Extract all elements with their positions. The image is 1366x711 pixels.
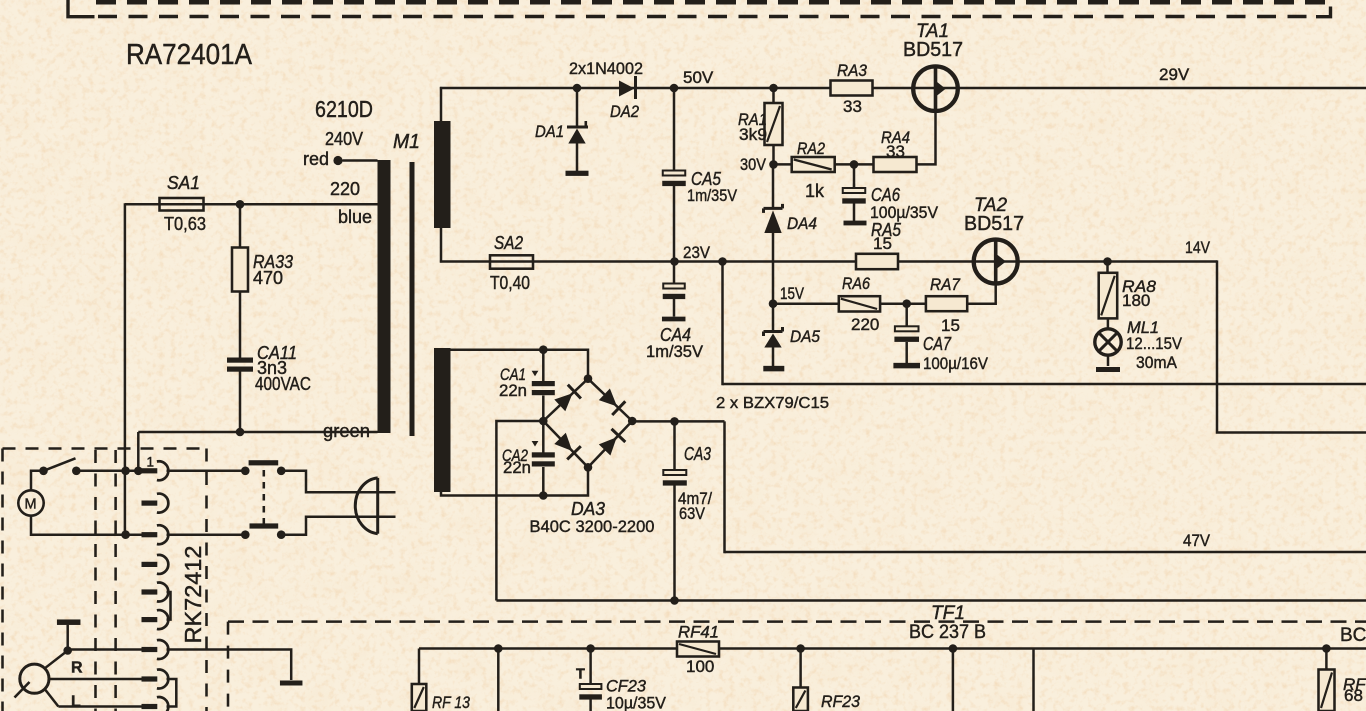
label RA6 <box>842 274 870 293</box>
node dot CF23 <box>586 644 595 653</box>
wire drop a <box>497 649 500 711</box>
label CA1 <box>500 366 526 384</box>
svg-text:RF23: RF23 <box>821 692 861 711</box>
connector pin 5 <box>142 583 169 602</box>
node dot CA3 top <box>670 417 679 426</box>
svg-text:DA3: DA3 <box>571 499 605 519</box>
connector pin 2 <box>142 494 169 513</box>
resistor RA4 <box>874 157 917 172</box>
wire contact to plug pin 1 <box>281 471 395 493</box>
label 50V <box>683 68 714 87</box>
resistor RA7 <box>926 296 967 311</box>
label 6210D <box>315 96 373 122</box>
diode DA1 <box>567 88 588 171</box>
svg-text:15: 15 <box>941 316 960 335</box>
label CA4 <box>660 325 691 345</box>
svg-text:22n: 22n <box>503 459 531 477</box>
wire green drop <box>137 432 140 471</box>
svg-text:BC 237 B: BC 237 B <box>909 622 986 643</box>
connector pin 3 <box>142 525 169 544</box>
wire RF68 riser <box>1325 649 1328 671</box>
polarity mark CA2 <box>532 441 539 447</box>
label TF1 <box>931 603 965 624</box>
lamp ML1 <box>1095 329 1121 355</box>
label 4m7/ <box>678 489 712 508</box>
label 15V <box>780 284 805 303</box>
svg-text:220: 220 <box>851 315 879 334</box>
label SA2 <box>494 233 523 253</box>
node dot bridge top <box>584 374 593 383</box>
label CA5 <box>691 169 722 189</box>
diode DA2 <box>619 76 636 99</box>
svg-text:180: 180 <box>1122 291 1150 310</box>
resistor RA2 <box>792 157 835 172</box>
wire connector1 to contact <box>167 470 247 473</box>
label T0,63 <box>164 214 206 234</box>
jumper connectors 8-9 <box>167 679 177 707</box>
resistor RF13 <box>412 684 427 711</box>
wire secondary-lower-bottom to bridge AC2 <box>441 467 588 496</box>
wire 23V / 14V rail <box>440 260 1217 263</box>
label BC right <box>1340 625 1366 646</box>
wire TA2 base <box>967 284 996 304</box>
node dot bridge bottom <box>584 463 593 472</box>
pickup cartridge symbol <box>15 664 50 697</box>
label RA1 <box>738 110 767 129</box>
svg-text:47V: 47V <box>1183 531 1211 550</box>
node dot DA1 anode <box>573 84 582 93</box>
node dot 15V <box>769 299 778 308</box>
wire RF rail <box>419 647 1366 650</box>
wire ML1 to chassis <box>1107 355 1110 366</box>
wire 220 rail (SA1 to transformer) <box>125 203 378 206</box>
svg-text:29V: 29V <box>1159 65 1190 84</box>
svg-text:M: M <box>25 497 37 513</box>
node dot CA3 bottom <box>670 596 679 605</box>
svg-text:50V: 50V <box>683 68 714 87</box>
bridge diode lower-right <box>599 429 626 456</box>
svg-text:68: 68 <box>1344 686 1363 705</box>
wire return rail <box>723 383 1366 386</box>
label 240V <box>325 129 363 149</box>
chassis bar CA4 <box>662 317 686 322</box>
label 1m/35V CA4 <box>646 342 704 361</box>
connector pin 6 <box>142 610 169 629</box>
svg-text:470: 470 <box>253 268 283 288</box>
svg-text:100µ/16V: 100µ/16V <box>923 354 989 373</box>
label blue <box>338 207 372 227</box>
mains contact bar bottom <box>250 523 279 528</box>
label CF23 <box>606 677 647 696</box>
label green <box>323 421 370 441</box>
label 63V <box>679 504 706 523</box>
label 30V <box>740 155 767 174</box>
svg-text:M1: M1 <box>393 131 420 153</box>
svg-text:1: 1 <box>147 455 155 470</box>
svg-text:blue: blue <box>338 207 372 227</box>
wire RA2 to RA4 <box>835 163 875 166</box>
label DA1 <box>535 122 564 141</box>
label 14V <box>1185 238 1211 257</box>
diode DA5 (zener) <box>764 304 783 366</box>
mains contact dot d <box>277 530 286 539</box>
wire SA1 left drop <box>124 203 127 535</box>
svg-text:BD517: BD517 <box>903 39 963 61</box>
label 1m/35V CA5 <box>687 186 738 205</box>
capacitor CF23 <box>579 649 602 711</box>
label 15 RA5 <box>873 234 892 253</box>
wire secondary-lower to bridge AC1 <box>451 350 589 380</box>
svg-text:DA2: DA2 <box>610 102 639 121</box>
wire RA6 to RA7 <box>880 302 927 305</box>
switch SK1 contact dot right <box>72 467 81 476</box>
svg-text:T0,40: T0,40 <box>490 273 530 293</box>
label BC237B <box>909 622 986 643</box>
label CA11 <box>257 343 297 363</box>
svg-text:RK72412: RK72412 <box>180 546 206 644</box>
label 33 RA4 <box>886 142 905 161</box>
chassis bar ML1 <box>1096 367 1120 372</box>
jumper connectors 5-6 <box>167 592 171 620</box>
transformer M1 secondary winding upper <box>434 121 451 228</box>
wire 0V bottom rail <box>496 599 1366 602</box>
dashed border second row <box>98 15 1316 18</box>
fuse SA1 <box>160 198 204 211</box>
wire green (transformer to drop) <box>138 431 377 434</box>
svg-text:RA7: RA7 <box>930 275 960 294</box>
svg-text:R: R <box>71 660 83 677</box>
wire drop c <box>1032 649 1035 711</box>
wire switch to connector 1 <box>76 470 142 473</box>
label 100u/16V <box>923 354 989 373</box>
label 100 RF41 <box>686 657 714 676</box>
label RA4 <box>881 128 910 147</box>
resistor RA5 <box>856 254 898 269</box>
wire 47V riser <box>723 421 726 553</box>
svg-text:15V: 15V <box>780 284 805 303</box>
wire 50V / 29V rail <box>440 87 1366 90</box>
node dot drop b <box>949 644 958 653</box>
label RA7 <box>930 275 960 294</box>
svg-text:15: 15 <box>873 234 892 253</box>
node dot pickup <box>63 646 72 655</box>
border corner bracket right <box>1316 7 1331 17</box>
dashed line inner a <box>94 450 97 711</box>
label 47V <box>1183 531 1211 550</box>
label DA5 <box>790 327 820 346</box>
label T CF23 <box>576 667 585 683</box>
svg-text:T: T <box>576 667 585 683</box>
node dot bridge left <box>539 417 548 426</box>
capacitor CA3 <box>663 421 687 600</box>
svg-text:3k9: 3k9 <box>739 125 767 144</box>
wire contact to plug pin 2 <box>281 517 395 535</box>
node dot RF rail a <box>494 644 503 653</box>
node dot CA2 bottom <box>539 491 548 500</box>
node dot 23V/CA5 <box>670 257 679 266</box>
node dot SA1-drop row1 <box>121 467 130 476</box>
label 30mA <box>1136 353 1178 372</box>
node dot CA11/green <box>236 428 245 437</box>
switch SK1 lever <box>44 458 76 471</box>
dashed border top row <box>96 0 1330 5</box>
diode DA4 (zener) <box>764 164 783 303</box>
label 22n CA1 <box>499 382 527 400</box>
wire RF23 riser <box>799 649 802 689</box>
node dot SA1-drop row3 <box>121 530 130 539</box>
svg-text:L: L <box>71 694 81 711</box>
wire 30V to RA2 <box>774 163 793 166</box>
wire 47V rail <box>725 551 1366 554</box>
label 2xBZX79/C15 <box>716 395 829 412</box>
node dot CA1 top <box>539 345 548 354</box>
chassis bar DA1 <box>566 171 589 176</box>
svg-text:T0,63: T0,63 <box>164 214 206 234</box>
label RF41 <box>678 623 719 642</box>
capacitor CA5 <box>662 88 686 262</box>
dashed separator TF1 <box>228 620 1366 623</box>
resistor RA6 <box>839 296 880 311</box>
node dot 50V/CA5 <box>670 84 679 93</box>
label B40C3200-2200 <box>530 517 655 536</box>
node dot RF23 <box>796 644 805 653</box>
svg-text:RF 13: RF 13 <box>432 693 470 711</box>
svg-text:RA2: RA2 <box>797 139 825 158</box>
label R <box>71 660 83 677</box>
wire pickup ground drop <box>66 625 69 651</box>
dashed box left <box>1 449 4 711</box>
svg-text:220: 220 <box>330 179 360 199</box>
wire secondary-top-bottom to 23V rail <box>440 228 443 263</box>
label RA3 <box>837 61 867 80</box>
label 400VAC <box>255 374 311 394</box>
resistor RF23 <box>793 688 808 711</box>
wire 14V down and right <box>1217 260 1366 432</box>
svg-text:10µ/35V: 10µ/35V <box>606 694 667 711</box>
svg-text:DA5: DA5 <box>790 327 820 346</box>
label SA1 <box>167 173 200 193</box>
label pin 1 <box>147 455 155 470</box>
svg-text:SA1: SA1 <box>167 173 200 193</box>
svg-text:CA6: CA6 <box>871 185 901 205</box>
label 180 <box>1122 291 1150 310</box>
dashed box right <box>205 449 208 711</box>
connector pin 8 <box>142 670 169 689</box>
svg-text:33: 33 <box>843 97 862 116</box>
chassis bar connector7 <box>280 681 303 686</box>
label red <box>303 149 329 169</box>
node dot 50V/RA1 <box>769 84 778 93</box>
wire RF13 riser <box>418 649 421 685</box>
switch SK1 contact dot left <box>39 467 48 476</box>
resistor RA1 <box>765 88 783 164</box>
label 33 RA3 <box>843 97 862 116</box>
label CA3 <box>684 444 711 464</box>
transformer M1 core <box>410 162 415 436</box>
label RF <box>1343 675 1366 694</box>
resistor RA8 <box>1099 262 1118 319</box>
wire 15V to RA6 <box>773 302 840 305</box>
mains contact dot c <box>241 530 250 539</box>
capacitor CA1 <box>532 350 555 422</box>
svg-text:400VAC: 400VAC <box>255 374 311 394</box>
polarity mark CA1 <box>532 371 539 377</box>
svg-text:6210D: 6210D <box>315 96 373 122</box>
mains plug symbol <box>355 478 377 534</box>
wire motor top <box>31 471 44 491</box>
wire drop b <box>952 649 955 711</box>
fuse SA2 <box>490 255 533 268</box>
wire R to connector 8 <box>49 678 142 681</box>
bridge diode lower-left <box>554 433 581 460</box>
label M1 <box>393 131 420 153</box>
title RA72401A <box>126 39 252 71</box>
capacitor CA7 <box>894 304 919 363</box>
label DA4 <box>787 214 817 233</box>
bridge diode upper-left <box>554 385 581 412</box>
label DA2 <box>610 102 639 121</box>
svg-text:1m/35V: 1m/35V <box>646 342 704 361</box>
transistor TA1 <box>913 66 958 111</box>
label CA7 <box>923 334 952 354</box>
terminal dot red <box>333 156 342 165</box>
svg-text:RA72401A: RA72401A <box>126 39 252 71</box>
svg-text:23V: 23V <box>683 243 711 262</box>
node dot green-drop row1 <box>134 467 143 476</box>
svg-text:red: red <box>303 149 329 169</box>
transistor TA2 <box>974 240 1018 284</box>
label 23V <box>683 243 711 262</box>
svg-text:14V: 14V <box>1185 238 1211 257</box>
wire motor bottom <box>31 516 142 535</box>
wire connector7 to chassis <box>167 650 292 681</box>
capacitor CA11 <box>227 358 253 372</box>
transformer M1 primary winding <box>378 160 391 433</box>
svg-text:2 x BZX79/C15: 2 x BZX79/C15 <box>716 395 829 412</box>
label ML1 <box>1127 318 1159 337</box>
label BD517 TA2 <box>964 213 1024 235</box>
resistor RA3 <box>831 81 873 96</box>
wire bridge minus loop <box>496 421 543 601</box>
node dot RA6/CA7 <box>902 299 911 308</box>
node dot 220/RA33 <box>236 200 245 209</box>
label L <box>71 694 81 711</box>
svg-text:TF1: TF1 <box>931 603 965 624</box>
svg-text:RA3: RA3 <box>837 61 867 80</box>
chassis bar DA5 <box>763 366 784 372</box>
node dot RF68 <box>1322 644 1331 653</box>
label CA2 <box>502 447 528 465</box>
label 220 <box>330 179 360 199</box>
svg-text:DA1: DA1 <box>535 122 564 141</box>
label 29V <box>1159 65 1190 84</box>
label TA1 <box>916 21 949 42</box>
capacitor CA4 <box>663 262 686 317</box>
svg-text:CA7: CA7 <box>923 334 952 354</box>
svg-text:CA3: CA3 <box>684 444 711 464</box>
label 220 RA6 <box>851 315 879 334</box>
svg-text:240V: 240V <box>325 129 363 149</box>
mains contact bar top <box>249 460 279 465</box>
label 1k <box>805 181 825 201</box>
svg-text:DA4: DA4 <box>787 214 817 233</box>
wire bus 23V-to-return-rail <box>721 262 724 386</box>
label 22n CA2 <box>503 459 531 477</box>
label 3n3 <box>257 358 287 378</box>
label CA6 <box>871 185 901 205</box>
svg-text:RF41: RF41 <box>678 623 719 642</box>
label TA2 <box>974 195 1007 216</box>
label RA8 <box>1122 277 1157 296</box>
svg-text:22n: 22n <box>499 382 527 400</box>
label 470 <box>253 268 283 288</box>
resistor RA33 <box>232 204 248 291</box>
label 3k9 <box>739 125 767 144</box>
wire RA7 to TA2 base <box>967 302 996 305</box>
svg-text:BC: BC <box>1340 625 1366 646</box>
label 12...15V <box>1126 334 1183 353</box>
label 68 <box>1344 686 1363 705</box>
node dot 30V <box>769 160 778 169</box>
label RF23 <box>821 692 861 711</box>
svg-text:B40C 3200-2200: B40C 3200-2200 <box>530 517 655 536</box>
motor M1 symbol <box>18 490 43 515</box>
node dot bridge right <box>628 417 637 426</box>
node dot RA2/CA6 <box>850 160 859 169</box>
node dot 14V/RA8 <box>1103 257 1112 266</box>
resistor RF68 <box>1319 670 1335 711</box>
label RK72412 <box>180 546 206 644</box>
label RF13 <box>432 693 470 711</box>
dashed box top <box>3 447 207 450</box>
chassis bar CA6 <box>844 221 867 226</box>
connector pin 7 <box>142 640 169 659</box>
wire connector3 to contact <box>167 533 247 536</box>
label 100u/35V <box>870 203 939 222</box>
transformer M1 secondary winding lower <box>434 348 451 492</box>
dashed separator corner <box>227 622 230 711</box>
svg-text:100: 100 <box>686 657 714 676</box>
wire TA1 base to RA4 <box>917 111 936 164</box>
chassis bar CA7 <box>893 363 920 369</box>
svg-text:12...15V: 12...15V <box>1126 334 1183 353</box>
svg-text:1k: 1k <box>805 181 825 201</box>
svg-text:1m/35V: 1m/35V <box>687 186 738 205</box>
label RA5 name <box>871 220 902 240</box>
svg-text:33: 33 <box>886 142 905 161</box>
label 15 RA7 <box>941 316 960 335</box>
svg-text:BD517: BD517 <box>964 213 1024 235</box>
wire RA33 to CA11 <box>239 292 242 359</box>
wire pickup to ground dot <box>45 651 68 669</box>
bridge rectifier DA3 frame <box>543 379 632 468</box>
label BD517 TA1 <box>903 39 963 61</box>
connector pin 4 <box>142 555 169 574</box>
wire CA11 to green wire <box>239 372 242 433</box>
label DA3 <box>571 499 605 519</box>
wire bridge plus to riser <box>632 420 724 423</box>
capacitor CA6 <box>842 164 866 221</box>
label T0,40 <box>490 273 530 293</box>
dashed line inner b <box>114 450 117 711</box>
border corner bracket left <box>68 0 95 17</box>
wire red terminal to primary <box>343 159 378 162</box>
label RA2 <box>797 139 825 158</box>
resistor RF41 <box>677 642 719 657</box>
mains contact dot b <box>277 467 286 476</box>
bridge diode upper-right <box>599 389 626 416</box>
chassis bar pickup <box>57 619 80 625</box>
